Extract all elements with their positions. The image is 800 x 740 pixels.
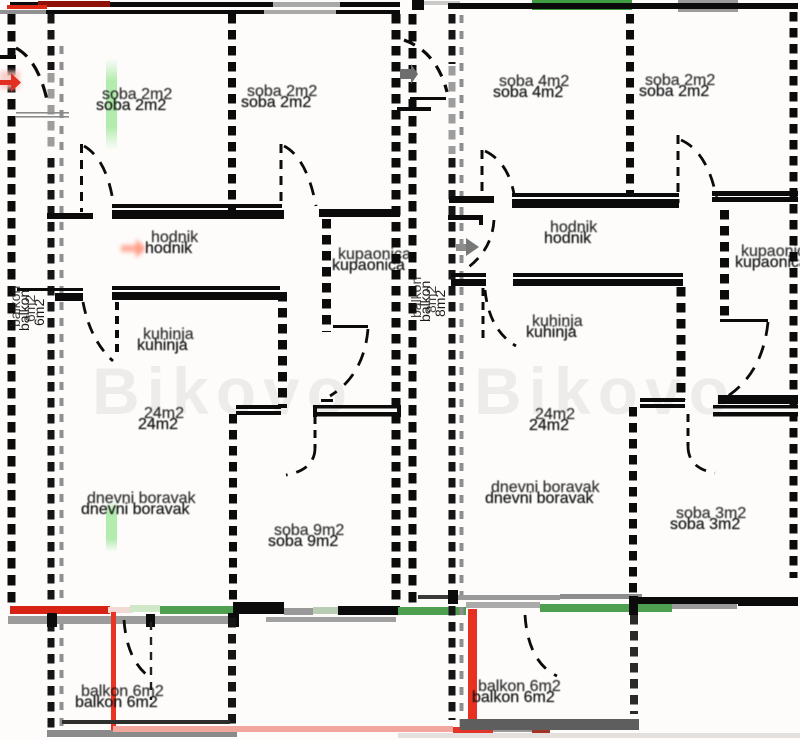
svg-text:soba 2m2: soba 2m2: [241, 94, 311, 111]
right apartment bottom wall gray thin 1: [453, 595, 560, 600]
right apartment top wall cap: [412, 0, 424, 10]
right soba3 top wall right segment: [713, 405, 798, 409]
svg-text:soba 3m2: soba 3m2: [670, 516, 740, 533]
left balkon outer gray bar: [47, 730, 237, 737]
right kupaonica bottom wall: [718, 395, 798, 404]
left entrance red arrow glow: [0, 71, 20, 89]
left apartment bottom wall green segment: [160, 606, 233, 614]
right entrance door swing arc: [404, 40, 447, 92]
right kuhinja right wall (dashed): [677, 287, 686, 400]
watermark: [92, 354, 736, 428]
dash blocks crossing bottom wall: [47, 613, 57, 627]
left apartment bottom wall greengray segment: [313, 607, 338, 614]
left apartment top wall upper line: [10, 2, 400, 7]
left soba9 door arc: [286, 448, 315, 475]
wall between left sobas (dashed): [228, 14, 236, 210]
left strip inner wall (dashed): [48, 14, 55, 732]
left apartment top wall gray start segment: [0, 10, 46, 14]
svg-text:kuhinja: kuhinja: [137, 337, 188, 354]
long pink horizontal line: [113, 726, 453, 732]
bright red part of bottom line: [453, 727, 493, 734]
svg-text:kuhinja: kuhinja: [526, 324, 577, 341]
svg-text:soba 4m2: soba 4m2: [493, 84, 563, 101]
right apartment top wall gray lead: [424, 1, 460, 5]
left entrance red arrow: [0, 73, 21, 92]
right soba1 door arc: [485, 151, 514, 194]
left hodnik top wall thick: [112, 210, 284, 219]
right apartment top wall main line: [448, 3, 798, 9]
left entrance door swing arc: [16, 48, 47, 100]
right entrance door lines: [410, 97, 446, 100]
right hodnik top wall left part: [449, 196, 494, 203]
gray part of bottom line: [493, 726, 532, 732]
green bridge segment between apartments: [398, 607, 466, 615]
left hodnik bottom wall thick: [112, 292, 278, 300]
right apartment bottom wall gray under 2: [466, 602, 540, 608]
right kuhinja door arc: [485, 290, 516, 346]
green stripe in left soba 1: [106, 58, 117, 150]
left soba9 door leaf (dashed): [314, 416, 317, 448]
left kuhinja wall jamb (dashed): [115, 302, 119, 358]
right balkon red vertical line: [468, 609, 477, 732]
dark red end of bottom line: [532, 727, 550, 734]
right kupaonica door leaf: [720, 319, 768, 322]
left apartment bottom wall faint segment: [108, 607, 133, 613]
left soba9 top wall left segment: [236, 405, 281, 409]
wall between right sobas (dashed): [626, 14, 634, 195]
right strip inner thin gray dashed line: [460, 15, 464, 736]
right apartment outer right wall (dashed): [790, 12, 798, 578]
right hodnik inner door arc: [463, 220, 494, 271]
right kupaonica left wall (dashed): [720, 210, 729, 318]
left strip inner thin gray dashed line: [60, 46, 64, 736]
svg-text:dnevni boravak: dnevni boravak: [81, 501, 191, 518]
right apartment bottom wall black 1: [630, 597, 738, 604]
right apartment bottom wall gray thin 2: [560, 594, 642, 599]
right kuhinja door leaf (dashed): [482, 288, 485, 344]
svg-text:balkon 6m2: balkon 6m2: [472, 689, 555, 706]
right soba2 door arc: [681, 140, 717, 200]
svg-text:24m2: 24m2: [529, 417, 569, 434]
left apartment bottom wall gray underline left: [8, 616, 236, 624]
svg-text:kupaonica: kupaonica: [332, 257, 405, 274]
left apartment bottom wall red segment: [10, 606, 110, 614]
left apartment top wall lower line: [46, 10, 400, 14]
left soba2 door leaf (dashed): [280, 144, 283, 208]
right hodnik bottom wall right segment: [513, 273, 683, 277]
left balkon red vertical line: [111, 612, 116, 730]
right soba3 door leaf (dashed): [687, 414, 690, 446]
left balkon inner line: [62, 720, 230, 724]
left entrance door lintel: [0, 55, 16, 59]
svg-text:soba 2m2: soba 2m2: [96, 97, 166, 114]
left balkon right wall (dashed): [228, 618, 236, 730]
right apartment bottom wall black 2: [738, 597, 798, 606]
left entrance window double line: [16, 112, 69, 114]
right soba1 door leaf (dashed): [481, 150, 484, 196]
right balkon bottom gray bar: [460, 719, 639, 730]
right strip inner wall (dashed): [449, 14, 456, 720]
dash blocks crossing right bottom wall: [448, 590, 458, 604]
left kupaonica door arc: [330, 329, 368, 396]
bottom light gray line: [398, 733, 800, 738]
left soba9 top wall right segment (outlined): [313, 405, 401, 409]
svg-text:soba 9m2: soba 9m2: [268, 533, 338, 550]
right hodnik corner stub: [448, 215, 483, 220]
right apartment bottom wall thin dark: [418, 595, 453, 599]
left kupaonica left wall (dashed): [322, 219, 331, 332]
right entrance gray arrow: [400, 64, 418, 84]
right hodnik gray arrow: [456, 244, 466, 251]
right soba3 left wall (dashed): [629, 407, 637, 600]
left kupaonica door leaf: [333, 325, 368, 328]
right apartment bottom wall gray under 1: [672, 604, 737, 609]
svg-text:balkon 6m2: balkon 6m2: [75, 694, 158, 711]
small wall stub left of soba9 corner: [321, 399, 333, 402]
left hodnik top wall stub left: [47, 213, 93, 219]
right soba3 door arc: [688, 446, 715, 473]
left apartment top wall red segment: [38, 1, 110, 7]
svg-text:balkon: balkon: [7, 286, 23, 327]
left kuhinja right wall (dashed): [278, 292, 287, 408]
svg-text:hodnik: hodnik: [544, 230, 592, 247]
right apartment top wall green underlay: [532, 0, 632, 10]
right kupaonica door arc: [728, 322, 768, 396]
svg-text:Bikovo: Bikovo: [474, 354, 736, 428]
left hodnik top wall right part: [319, 209, 400, 217]
svg-text:6m2: 6m2: [22, 295, 38, 322]
left hodnik red arrow: [121, 239, 146, 258]
right hodnik top wall thick: [512, 199, 679, 208]
left hodnik bottom wall thin left: [17, 288, 83, 291]
right balkon door arc: [525, 615, 557, 676]
left soba1 door arc: [84, 146, 114, 208]
svg-text:soba 2m2: soba 2m2: [639, 83, 709, 100]
svg-text:8m2: 8m2: [423, 286, 439, 313]
left apartment top wall gray middle segment: [273, 2, 340, 7]
left balkon door leaf (dashed): [150, 622, 152, 700]
right apartment top wall gray underlay: [678, 0, 738, 12]
right hodnik top wall thin upper: [512, 193, 679, 197]
left soba1 door leaf (dashed): [80, 144, 83, 212]
left balkon door arc: [124, 620, 151, 678]
left soba9 left wall (dashed): [229, 414, 237, 604]
left hodnik top wall thin upper: [112, 204, 282, 208]
right hodnik bottom wall left segment: [451, 273, 486, 277]
left hodnik bottom wall thin: [112, 286, 280, 290]
left apartment top wall bright red sliver: [7, 5, 47, 9]
svg-text:dnevni boravak: dnevni boravak: [485, 490, 595, 507]
svg-text:24m2: 24m2: [138, 416, 178, 433]
left apartment bottom wall gray underline right: [266, 617, 396, 622]
svg-text:hodnik: hodnik: [145, 240, 193, 257]
right apartment outer left wall (dashed): [409, 14, 417, 608]
svg-text:balkon: balkon: [408, 277, 424, 318]
right hodnik top wall right part: [712, 191, 798, 196]
right balkon right wall (dashed): [630, 615, 638, 714]
svg-text:kupaonica: kupaonica: [735, 254, 800, 271]
apartment separator wall (dashed): [392, 14, 401, 600]
right apartment bottom wall green segment: [540, 604, 672, 612]
left apartment bottom wall black segment 2: [338, 606, 400, 615]
green stripe in dnevni boravak: [106, 500, 117, 552]
left soba2 door arc: [284, 146, 316, 206]
left apartment bottom wall gray segment: [284, 608, 313, 615]
left hodnik bottom wall left block: [55, 293, 83, 301]
left apartment outer left wall (dashed): [8, 14, 16, 604]
right soba2 door leaf (dashed): [677, 135, 680, 203]
right soba3 top wall left segment: [640, 398, 685, 402]
left apartment bottom wall black segment 1: [233, 602, 284, 614]
left hodnik-dnevni door arc: [83, 302, 113, 361]
